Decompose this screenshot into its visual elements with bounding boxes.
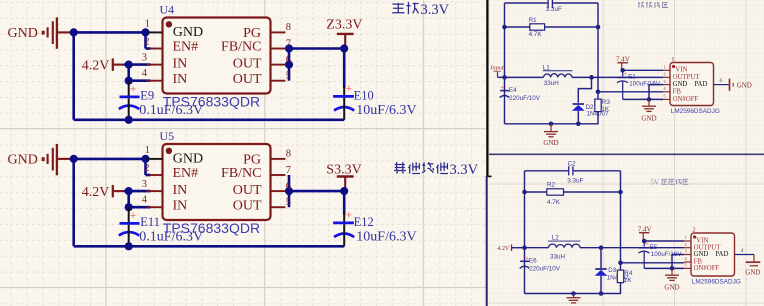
pin 3: [663, 84, 670, 86]
pin 5: [684, 267, 691, 269]
ground symbol (mid): [641, 99, 656, 122]
pin 4 (IN): [147, 206, 163, 208]
wire output rail (left vertical): [504, 3, 506, 124]
sheet border (navy, lower): [486, 176, 488, 306]
svg-text:E5: E5: [650, 244, 658, 251]
node feedback junction: [618, 261, 623, 266]
svg-text:FB/NC: FB/NC: [221, 166, 261, 181]
node resistor row left: [502, 25, 507, 30]
node VIN junction: [620, 68, 625, 73]
power port Z3.3V: [326, 18, 362, 49]
wire pin3-node down to pin4 row: [127, 191, 130, 207]
node ground junction: [670, 266, 675, 271]
pin 6 (OUT): [271, 190, 286, 192]
pin 2: [684, 247, 691, 249]
svg-text:5: 5: [286, 197, 291, 208]
wire top feedback bus: [505, 2, 548, 4]
ground symbol (bottom bus): [567, 291, 581, 303]
pin 4: [684, 261, 691, 263]
pin 4 (GND PAD): [735, 248, 755, 255]
net label 其他线性3.3V: [394, 162, 479, 178]
inductor L1 33uH: [505, 64, 664, 87]
pin 2 (EN#): [150, 48, 163, 50]
node VIN junction: [642, 239, 647, 244]
pin 3 (IN): [147, 64, 163, 66]
wire pin3-node down to pin4 row: [127, 65, 130, 81]
node pin7 junction: [285, 44, 293, 52]
svg-text:VIN: VIN: [675, 67, 687, 74]
pin 7 (FB/NC): [271, 48, 286, 50]
pin 3 (IN): [147, 190, 163, 192]
wire FB row: [598, 91, 663, 93]
pin 3: [684, 254, 691, 256]
node diode anode on ground bus: [576, 122, 581, 127]
wire bottom ground bus: [525, 293, 622, 295]
svg-text:E9: E9: [140, 89, 154, 103]
capacitor E5 100uF/16V: [638, 241, 682, 268]
wire output row to power node: [289, 190, 344, 193]
title 5V开关稳压: [650, 178, 688, 187]
svg-text:+: +: [346, 83, 352, 95]
svg-text:GND: GND: [694, 251, 709, 258]
pin 1: [684, 240, 691, 242]
node at ground junction: [70, 155, 78, 163]
pin 6 (GND PAD): [714, 78, 729, 85]
node inductor row left: [522, 245, 527, 250]
pin 6 (OUT): [271, 64, 286, 66]
wire power node down to cap: [343, 49, 346, 89]
svg-text:GND: GND: [173, 151, 203, 166]
svg-text:GND: GND: [543, 139, 558, 147]
wire gnd-port to pin1 node: [71, 31, 146, 34]
svg-text:4: 4: [142, 195, 148, 206]
svg-text:R1: R1: [529, 17, 538, 24]
svg-text:1: 1: [145, 145, 150, 156]
inductor L2 33uH: [525, 235, 685, 261]
svg-text:4.2V: 4.2V: [82, 185, 110, 200]
svg-text:E4: E4: [509, 87, 517, 94]
node at ground junction: [70, 28, 78, 36]
svg-text:ON#OFF: ON#OFF: [673, 96, 699, 103]
wire FB row: [621, 262, 685, 264]
wire right feedback vertical: [597, 3, 599, 92]
wire VIN row: [644, 240, 684, 242]
svg-text:33uH: 33uH: [544, 80, 560, 87]
svg-text:GND: GND: [173, 25, 203, 40]
svg-text:33uH: 33uH: [550, 254, 566, 261]
power port GND (pad): [730, 79, 752, 91]
resistor R4 1K: [617, 263, 633, 294]
node diode anode on ground bus: [599, 291, 604, 296]
resistor R1 4.7K: [505, 17, 599, 38]
svg-text:GND: GND: [745, 268, 760, 276]
power port S3.3V: [326, 162, 361, 191]
svg-text:4: 4: [741, 248, 744, 254]
pin 2: [663, 76, 670, 78]
svg-text:GND: GND: [8, 26, 38, 41]
svg-text:IN: IN: [173, 72, 188, 87]
svg-text:L2: L2: [552, 235, 560, 242]
svg-text:10uF/6.3V: 10uF/6.3V: [356, 103, 416, 118]
node ground junction: [647, 97, 652, 102]
svg-text:FB/NC: FB/NC: [221, 40, 261, 55]
node pin1/pin2 junction: [141, 28, 149, 36]
svg-text:5: 5: [286, 71, 291, 82]
power port GND (pad): [745, 255, 760, 277]
svg-text:U4: U4: [160, 3, 175, 17]
capacitor E6 220uF/10V: [520, 256, 561, 273]
capacitor C2 3.3uF: [567, 160, 583, 184]
svg-text:1: 1: [145, 19, 150, 30]
pin 8 (PG): [271, 31, 286, 33]
wire 4.2V to pin3: [124, 63, 151, 66]
wire GND pin return: [672, 255, 684, 269]
wire pin4 row to chip: [129, 206, 151, 209]
svg-text:TPS76833QDR: TPS76833QDR: [163, 93, 260, 109]
wire output row to power node: [289, 47, 344, 50]
svg-text:PAD: PAD: [694, 81, 707, 88]
svg-text:L1: L1: [543, 64, 551, 71]
wire 4.2V to pin3: [124, 190, 151, 193]
wire ON/OFF row: [623, 98, 663, 100]
pin 8 (PG): [271, 158, 286, 160]
wire output rail (left vertical): [524, 171, 526, 294]
svg-text:GND: GND: [673, 81, 688, 88]
power port 7.4V: [616, 56, 630, 71]
wire power node down to cap: [343, 191, 346, 214]
svg-text:E12: E12: [354, 215, 374, 229]
svg-text:4.2V: 4.2V: [497, 245, 510, 252]
wire bottom bus: [74, 245, 345, 248]
regulator LM2596DSADJG (lower): [691, 227, 741, 286]
svg-text:LM2596DSADJG: LM2596DSADJG: [671, 108, 720, 115]
capacitor E1 100uF/16V: [617, 70, 661, 99]
svg-text:E10: E10: [354, 88, 374, 102]
svg-text:GND: GND: [664, 283, 679, 291]
pin 4: [663, 91, 670, 93]
wire right feedback vertical: [620, 171, 622, 263]
node switch junction: [599, 245, 604, 250]
node switch junction: [589, 75, 594, 80]
node inductor row left: [502, 75, 507, 80]
resistor R2 4.7K: [525, 182, 621, 206]
node pin1/pin2 junction: [141, 155, 149, 163]
svg-text:TPS76833QDR: TPS76833QDR: [163, 220, 260, 236]
svg-text:1K: 1K: [601, 106, 610, 113]
capacitor E11 0.1uF/6.3V: [119, 207, 203, 246]
diode D3 1N4007: [595, 248, 629, 294]
svg-text:Input: Input: [489, 65, 504, 72]
pin 1 (GND pin, black): [147, 31, 163, 33]
svg-text:6: 6: [286, 54, 291, 65]
svg-text:7: 7: [286, 165, 291, 176]
wire ON/OFF row: [644, 267, 684, 269]
capacitor E10 10uF/6.3V: [333, 83, 416, 120]
svg-text:3: 3: [142, 53, 147, 64]
svg-text:6: 6: [286, 181, 291, 192]
power port 4.2V (input): [497, 244, 511, 252]
wire output vertical (pins 7-5): [288, 175, 291, 207]
node resistor row right: [596, 25, 601, 30]
svg-text:IN: IN: [173, 56, 188, 71]
capacitor E9 0.1uF/6.3V: [119, 81, 203, 120]
svg-text:S3.3V: S3.3V: [326, 162, 361, 177]
svg-text:220uF/10V: 220uF/10V: [509, 95, 541, 102]
svg-text:220uF/10V: 220uF/10V: [529, 266, 561, 273]
svg-text:2: 2: [144, 36, 149, 47]
svg-text:OUT: OUT: [233, 56, 262, 71]
svg-text:3.3V: 3.3V: [450, 162, 479, 178]
resistor R3 1K: [595, 92, 611, 124]
wire output vertical (pins 7-5): [288, 49, 291, 81]
wire pin1-node down to pin2 row: [144, 159, 147, 175]
svg-text:ON#OFF: ON#OFF: [694, 265, 720, 272]
wire left rail down: [72, 32, 75, 119]
svg-text:FB: FB: [673, 88, 682, 95]
svg-text:4: 4: [142, 68, 148, 79]
svg-text:+: +: [130, 210, 136, 222]
regulator LM2596DSADJG (upper): [670, 56, 720, 115]
svg-text:4.7K: 4.7K: [529, 31, 543, 38]
node cap bottom junction: [125, 242, 133, 250]
title 脱机稳压: [638, 2, 668, 8]
svg-text:3.3uF: 3.3uF: [567, 178, 583, 185]
wire GND pin return: [649, 85, 663, 100]
svg-text:3.3V: 3.3V: [421, 2, 450, 18]
svg-text:U5: U5: [160, 129, 175, 143]
svg-text:GND: GND: [641, 114, 656, 122]
node feedback junction: [596, 90, 601, 95]
svg-text:8: 8: [286, 149, 291, 160]
svg-text:10uF/6.3V: 10uF/6.3V: [356, 229, 416, 244]
svg-text:E11: E11: [140, 215, 160, 229]
svg-text:4.7K: 4.7K: [547, 199, 561, 206]
svg-text:+: +: [130, 83, 136, 95]
capacitor E4 220uF/10V: [500, 85, 541, 102]
svg-text:8: 8: [286, 22, 291, 33]
svg-text:OUT: OUT: [233, 72, 262, 87]
ground port GND (left of U5): [8, 144, 72, 175]
capacitor E12 10uF/6.3V: [333, 210, 416, 247]
ground symbol (bottom bus): [543, 122, 558, 148]
power port 4.2V (U4): [82, 58, 124, 73]
net label 主板3.3V: [392, 2, 449, 18]
wire pin4 row to chip: [129, 79, 151, 82]
svg-text:5V: 5V: [650, 178, 660, 187]
power port 4.2V (U5): [82, 185, 124, 200]
node output/power junction: [340, 44, 348, 52]
svg-text:PAD: PAD: [715, 251, 728, 258]
svg-text:E1: E1: [628, 74, 636, 81]
svg-text:EN#: EN#: [173, 40, 199, 55]
svg-text:GND: GND: [737, 81, 752, 89]
svg-text:OUT: OUT: [233, 199, 262, 214]
node pin4 junction: [125, 203, 133, 211]
ground port GND (left of U4): [8, 17, 72, 48]
wire gnd-port to pin1 node: [71, 158, 146, 161]
pin 4 (IN): [147, 80, 163, 82]
svg-text:OUTPUT: OUTPUT: [673, 74, 701, 81]
pin 1: [663, 69, 670, 71]
pin 2 (EN#): [150, 174, 163, 176]
node pin4 junction: [125, 77, 133, 85]
pin 1 (GND pin, black): [147, 158, 163, 160]
sheet separator line: [489, 153, 764, 155]
diode D2 1N4007: [572, 77, 609, 123]
wire bottom bus: [74, 119, 345, 122]
svg-text:OUT: OUT: [233, 183, 262, 198]
node pin3 junction: [125, 187, 133, 195]
power port 7.4V: [638, 225, 652, 241]
svg-text:3: 3: [142, 179, 147, 190]
svg-text:D3: D3: [608, 267, 617, 274]
wire bottom ground bus: [505, 123, 599, 125]
pin 7 (FB/NC): [271, 174, 286, 176]
svg-text:E6: E6: [529, 258, 537, 265]
sheet border (black, upper): [486, 0, 488, 176]
node resistor row left: [522, 190, 527, 195]
node pin6 junction: [285, 61, 293, 69]
wire VIN row: [623, 69, 663, 71]
svg-text:4.2V: 4.2V: [82, 58, 110, 73]
svg-text:R2: R2: [547, 182, 556, 189]
pin 5 (OUT): [271, 206, 286, 208]
wire left rail down: [72, 159, 75, 246]
wire port to rail: [498, 76, 505, 78]
svg-text:IN: IN: [173, 199, 188, 214]
svg-text:2: 2: [144, 163, 149, 174]
svg-text:1: 1: [671, 56, 674, 63]
svg-text:+: +: [346, 210, 352, 222]
svg-text:EN#: EN#: [173, 166, 199, 181]
svg-text:7: 7: [286, 38, 291, 49]
port Input (output rail): [489, 65, 504, 78]
node pin6 junction: [285, 187, 293, 195]
node output/power junction: [340, 187, 348, 195]
wire top feedback bus: [525, 170, 569, 172]
wire pin1-node down to pin2 row: [144, 32, 147, 48]
node pin3 junction: [125, 61, 133, 69]
svg-text:IN: IN: [173, 183, 188, 198]
svg-text:1K: 1K: [624, 277, 633, 284]
regulator U5 TPS76833QDR: [160, 129, 271, 236]
pin 5 (OUT): [271, 80, 286, 82]
regulator U4 TPS76833QDR: [160, 3, 271, 110]
pin 5: [663, 98, 670, 100]
node cap bottom junction: [125, 116, 133, 124]
svg-text:LM2596DSADJG: LM2596DSADJG: [692, 278, 741, 285]
svg-text:3.3uF: 3.3uF: [546, 6, 562, 13]
capacitor C1 3.3uF: [546, 0, 562, 13]
svg-text:2: 2: [692, 227, 695, 234]
wire port to rail: [512, 247, 525, 249]
svg-text:GND: GND: [8, 152, 38, 167]
ground symbol (mid): [664, 268, 679, 291]
svg-text:6: 6: [720, 78, 723, 84]
svg-text:Z3.3V: Z3.3V: [326, 18, 362, 33]
node resistor row right: [618, 190, 623, 195]
